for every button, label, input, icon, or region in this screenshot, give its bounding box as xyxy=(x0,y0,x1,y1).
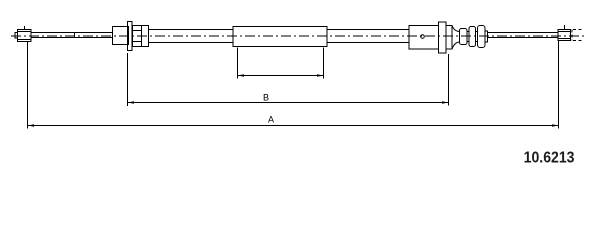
svg-text:A: A xyxy=(268,115,274,125)
hidden seat dashed edge xyxy=(571,30,573,41)
boot band 1 xyxy=(460,29,468,45)
right barrel nipple xyxy=(558,30,571,41)
svg-text:10.6213: 10.6213 xyxy=(524,149,575,167)
ext line sleeve left xyxy=(237,48,239,79)
adjuster nut facet line xyxy=(141,26,143,47)
sleeve dim line xyxy=(238,75,324,77)
B ext left xyxy=(127,53,129,106)
svg-text:B: B xyxy=(263,93,269,103)
sleeve dim arrow left xyxy=(238,74,245,76)
B dim arrow right xyxy=(442,101,449,103)
right flange xyxy=(439,22,447,53)
A dim arrow right xyxy=(552,124,559,126)
B dim arrow left xyxy=(128,101,135,103)
ferrule xyxy=(113,27,129,45)
centerline xyxy=(11,35,586,37)
sleeve xyxy=(233,27,327,47)
part number 10.6213 xyxy=(524,149,575,167)
boot band 3 xyxy=(478,26,486,48)
boot end cuff xyxy=(485,31,488,42)
B dim line xyxy=(128,102,449,104)
body hole xyxy=(421,35,425,39)
collar xyxy=(446,26,452,50)
adjuster nut xyxy=(133,26,149,47)
hidden seat dashes xyxy=(573,30,583,41)
ext line sleeve right xyxy=(323,48,325,79)
conduit 2 xyxy=(327,30,409,43)
left barrel inner lines xyxy=(18,32,32,40)
left barrel nipple xyxy=(18,30,32,42)
A ext left xyxy=(27,42,29,129)
right body xyxy=(409,26,439,50)
A dim line xyxy=(28,125,559,127)
boot band 2 xyxy=(469,27,476,47)
conduit 1 xyxy=(149,30,234,43)
left end stub xyxy=(15,33,18,39)
inner rod left xyxy=(31,33,113,38)
boot neck lines xyxy=(467,32,478,42)
B ext right xyxy=(448,54,450,106)
right barrel top tick xyxy=(564,25,566,30)
right barrel inner lines xyxy=(558,32,571,39)
left barrel top tick xyxy=(24,26,26,30)
adjuster nut chamfer lines xyxy=(133,31,142,42)
inner rod right xyxy=(488,33,559,38)
A dim arrow left xyxy=(28,124,35,126)
flange xyxy=(128,22,133,51)
rod joint tick xyxy=(74,32,76,38)
A ext right xyxy=(558,41,560,129)
sleeve dim arrow right xyxy=(317,74,324,76)
boot taper xyxy=(452,26,460,50)
